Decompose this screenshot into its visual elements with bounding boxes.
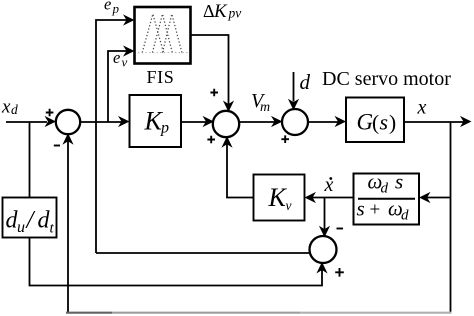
svg-text:/: / xyxy=(25,207,36,234)
svg-text:K: K xyxy=(268,183,288,212)
svg-text:u: u xyxy=(17,219,25,236)
svg-text:e: e xyxy=(104,0,111,14)
svg-text:pv: pv xyxy=(228,5,242,20)
svg-text:x: x xyxy=(417,97,427,119)
svg-text:m: m xyxy=(260,100,270,115)
svg-text:v: v xyxy=(286,198,292,213)
svg-text:d: d xyxy=(300,70,311,94)
svg-text:e: e xyxy=(113,48,120,67)
svg-text:t: t xyxy=(50,221,55,237)
svg-text:+: + xyxy=(370,200,381,221)
svg-text:s: s xyxy=(380,110,389,135)
svg-text:FIS: FIS xyxy=(147,67,175,87)
svg-text:): ) xyxy=(389,111,396,135)
svg-text:DC servo motor: DC servo motor xyxy=(322,68,451,90)
svg-text:p: p xyxy=(160,120,169,137)
svg-text:(: ( xyxy=(372,111,379,135)
svg-text:p: p xyxy=(112,1,120,16)
svg-text:G: G xyxy=(357,110,374,135)
svg-text:d: d xyxy=(11,102,18,117)
svg-text:v: v xyxy=(122,55,128,70)
svg-text:x: x xyxy=(1,97,11,118)
svg-text:s: s xyxy=(357,197,365,221)
svg-text:x: x xyxy=(324,174,334,196)
svg-text:s: s xyxy=(395,170,403,194)
svg-text:Δ: Δ xyxy=(203,1,215,21)
svg-text:K: K xyxy=(213,1,228,22)
svg-text:d: d xyxy=(401,208,409,224)
svg-text:d: d xyxy=(381,181,389,197)
